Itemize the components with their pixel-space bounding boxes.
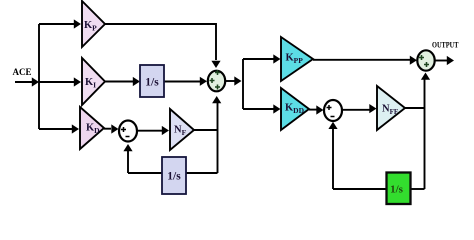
svg-text:1/s: 1/s xyxy=(145,77,159,89)
svg-text:1/s: 1/s xyxy=(390,184,404,196)
svg-text:1/s: 1/s xyxy=(167,171,181,183)
svg-text:OUTPUT: OUTPUT xyxy=(432,40,459,50)
svg-text:ACE: ACE xyxy=(12,67,31,77)
